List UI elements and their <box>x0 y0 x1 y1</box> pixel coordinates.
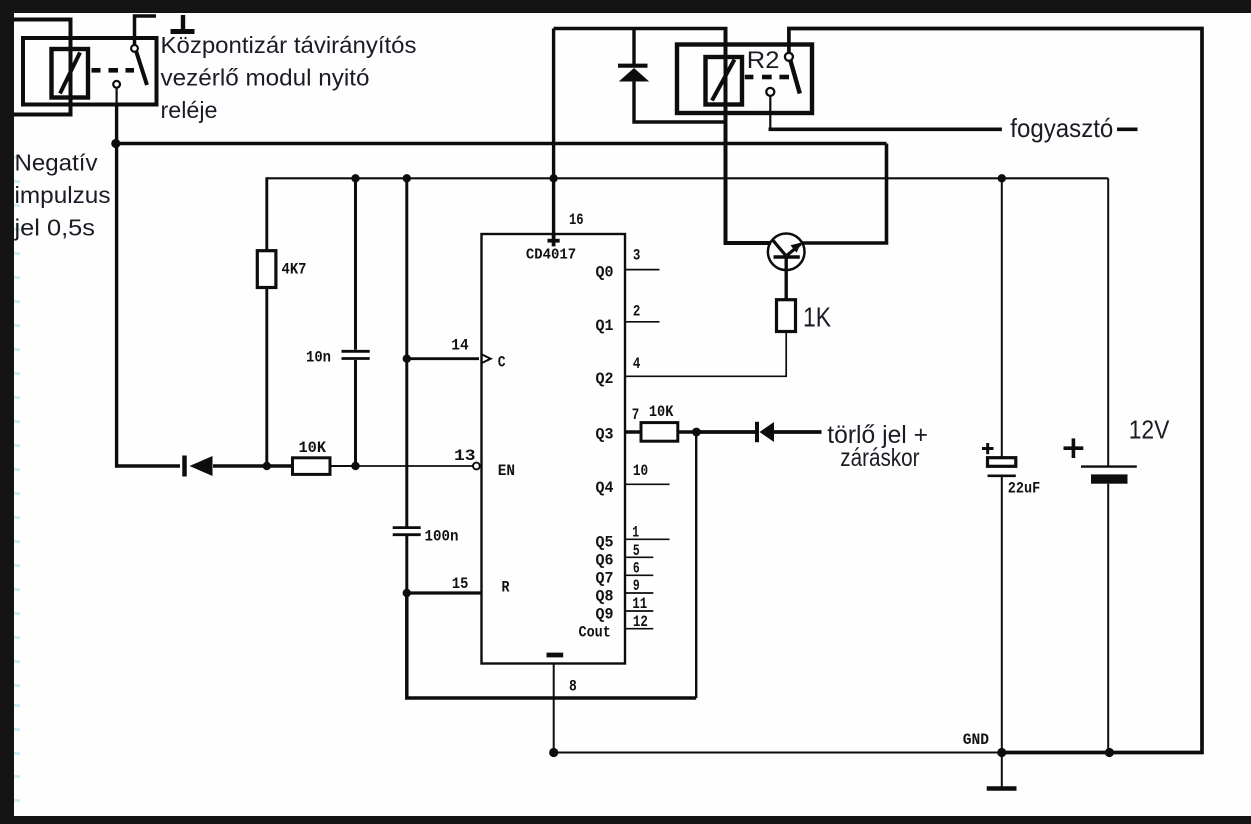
relay K1 coil loop wire <box>14 20 71 115</box>
ground top <box>171 15 195 32</box>
svg-text:22uF: 22uF <box>1008 480 1040 498</box>
pin Q8 <box>625 592 653 594</box>
wire: R2 lower contact down <box>769 96 771 128</box>
svg-text:10n: 10n <box>306 349 331 367</box>
wire: top rail left segment <box>554 27 728 30</box>
pin Q6 <box>625 556 653 558</box>
svg-text:13: 13 <box>454 447 476 465</box>
svg-text:EN: EN <box>498 462 515 480</box>
wire: fogyaszto right dash <box>1117 127 1138 131</box>
wire: x886 vertical to transistor <box>801 144 887 244</box>
wire: 100n branch lower <box>405 536 408 593</box>
svg-text:R2: R2 <box>747 47 780 74</box>
wire: pin 8 <box>553 664 555 753</box>
wire: y466 to diode <box>115 464 180 467</box>
svg-text:Q4: Q4 <box>596 479 614 497</box>
node C junction <box>351 462 359 470</box>
wire: fogyaszto lead <box>769 127 1002 131</box>
svg-text:1K: 1K <box>803 302 831 333</box>
capacitor C3 22uF <box>988 458 1016 467</box>
wire: D2 anode down and right <box>634 81 726 122</box>
wire: gnd rail thin <box>554 752 1002 754</box>
svg-text:reléje: reléje <box>161 97 218 123</box>
diode D3 <box>755 422 759 442</box>
pin Q0 <box>625 269 660 271</box>
wire: base lead <box>785 257 788 300</box>
svg-text:9: 9 <box>633 577 640 595</box>
wire: left vertical x116 <box>115 144 118 468</box>
wire: 10K to node C <box>330 465 358 467</box>
svg-text:CD4017: CD4017 <box>526 246 576 263</box>
svg-text:11: 11 <box>632 595 647 613</box>
svg-text:Q6: Q6 <box>596 552 614 570</box>
IC U1 CD4017 body <box>482 234 626 664</box>
svg-text:GND: GND <box>963 731 989 749</box>
wire: Q2 long lead <box>625 375 787 377</box>
wire: coil vertical through to transistor <box>726 29 772 244</box>
node L junction battery/gnd <box>1105 748 1114 757</box>
svg-text:6: 6 <box>633 560 640 578</box>
wire: battery upper <box>1107 178 1109 466</box>
wire: 10n branch lower <box>354 360 357 466</box>
svg-text:1: 1 <box>632 524 639 542</box>
relay R2 armature <box>791 61 800 94</box>
relay K1 dashed link <box>92 68 135 73</box>
wire: x696 vertical up to Q3 node <box>695 432 697 698</box>
pin16 plus mark <box>548 235 560 246</box>
relay K1 armature <box>136 52 147 85</box>
node K junction 22uF/gnd <box>997 748 1006 757</box>
diode D2 <box>618 64 648 68</box>
wire: node I to diode D3 <box>696 430 757 434</box>
svg-text:Cout: Cout <box>579 623 611 641</box>
svg-text:14: 14 <box>451 337 469 355</box>
diode D1 <box>182 456 187 477</box>
svg-text:Q8: Q8 <box>596 587 614 605</box>
svg-text:fogyasztó: fogyasztó <box>1010 113 1113 143</box>
wire: K1 lower contact down <box>115 88 117 105</box>
svg-text:Q5: Q5 <box>596 534 614 552</box>
wire: 4K7 branch lower <box>265 288 268 467</box>
relay K1 coil <box>52 49 89 98</box>
svg-text:2: 2 <box>633 303 641 321</box>
pin Q3 with resistor R6 10K <box>625 430 642 433</box>
node G junction R pin <box>403 589 411 597</box>
resistor R3 10K <box>293 458 331 475</box>
svg-text:vezérlő modul nyitó: vezérlő modul nyitó <box>161 65 370 91</box>
wire: 4K7 branch upper <box>265 177 268 251</box>
wire: battery lower <box>1107 484 1109 753</box>
relay K1 switch lower contact <box>113 81 120 88</box>
pin Q7 <box>625 574 653 576</box>
transistor Q1 <box>768 234 805 271</box>
svg-text:16: 16 <box>569 211 584 229</box>
wire: clock branch <box>405 178 408 358</box>
svg-text:Q2: Q2 <box>596 370 614 388</box>
wire: 100n branch upper <box>405 359 408 527</box>
resistor R4 4K7 <box>257 251 276 288</box>
relay R2 dashed link <box>745 75 789 80</box>
pin EN bubble <box>473 463 480 470</box>
diode D2 branch wire <box>632 29 635 65</box>
svg-text:jel 0,5s: jel 0,5s <box>13 215 95 241</box>
svg-text:8: 8 <box>569 677 577 695</box>
svg-text:4: 4 <box>633 355 641 373</box>
node J junction pin8/gnd rail <box>549 748 558 757</box>
pin Q4 <box>625 483 670 485</box>
svg-text:Központizár távirányítós: Központizár távirányítós <box>161 32 417 58</box>
capacitor C1 10n <box>342 350 370 353</box>
svg-text:15: 15 <box>452 575 468 593</box>
node M junction 22uF/rail <box>998 174 1006 182</box>
border frame top <box>0 0 1251 13</box>
wire: switch top feed <box>135 16 157 45</box>
svg-text:4K7: 4K7 <box>282 261 307 279</box>
relay R2 lower contact <box>766 88 774 96</box>
relay R2 coil <box>706 57 743 105</box>
relay K1 switch top contact <box>131 45 138 52</box>
pin Q9 <box>625 610 653 612</box>
svg-text:impulzus: impulzus <box>15 182 111 208</box>
relay R2 top contact <box>785 53 793 61</box>
svg-text:Q0: Q0 <box>596 263 614 281</box>
capacitor C3 22uF plus <box>982 443 994 454</box>
svg-text:7: 7 <box>632 406 640 424</box>
label: Kozpontizar text block <box>161 32 417 123</box>
pin Q5 <box>625 538 670 540</box>
node H junction pin16/rail <box>549 174 557 182</box>
wire: +V rail y178 <box>267 177 1108 179</box>
border frame left <box>0 0 14 819</box>
wire: main horizontal y143 <box>116 142 887 146</box>
capacitor C2 100n <box>393 526 421 529</box>
svg-text:Q9: Q9 <box>596 605 614 623</box>
svg-text:10K: 10K <box>299 439 327 457</box>
svg-text:Negatív: Negatív <box>15 150 98 176</box>
cyan ruler ticks <box>14 156 20 802</box>
resistor R5 1K <box>777 300 796 332</box>
svg-text:Q3: Q3 <box>596 426 614 444</box>
IC minus mark <box>547 653 564 658</box>
relay K1 box <box>23 38 157 105</box>
svg-text:R: R <box>502 579 510 597</box>
wire: 1K to Q2 line <box>785 332 787 377</box>
pin Cout <box>625 628 653 630</box>
battery B1 12V <box>1081 465 1137 467</box>
node B junction <box>263 462 271 470</box>
label torlo jel <box>827 421 928 472</box>
svg-text:záráskor: záráskor <box>840 444 919 472</box>
battery B1 plus <box>1064 438 1084 458</box>
svg-text:3: 3 <box>633 247 641 265</box>
node E junction on rail <box>403 174 411 182</box>
wire: pin16 vertical <box>552 29 555 235</box>
wire: diode to node B <box>213 464 293 467</box>
svg-text:Q7: Q7 <box>596 570 614 588</box>
svg-text:100n: 100n <box>425 528 459 546</box>
wire: 10K out to node I <box>678 430 700 433</box>
wire: 22uF lower <box>1001 476 1003 753</box>
svg-text:12: 12 <box>633 613 648 631</box>
svg-text:12V: 12V <box>1129 414 1170 444</box>
clock arrow <box>481 354 491 364</box>
border frame bottom <box>0 816 1251 824</box>
ground bottom <box>1001 753 1003 787</box>
wire: 22uF upper <box>1001 178 1003 458</box>
svg-text:10: 10 <box>633 462 648 480</box>
wire: C pin lead <box>407 357 479 360</box>
node A junction <box>111 139 120 148</box>
node D junction on rail <box>351 174 359 182</box>
wire: 10n branch upper <box>354 178 357 349</box>
wire: top rail right segment and right border <box>789 29 1202 753</box>
node F junction C pin <box>403 355 411 363</box>
wire: R pin lead <box>407 591 482 594</box>
svg-text:C: C <box>498 354 506 372</box>
pin Q1 <box>625 321 660 323</box>
wire: reset net down and right <box>407 593 696 698</box>
node I junction <box>692 428 701 437</box>
svg-text:5: 5 <box>633 542 640 560</box>
label: Negativ impulzus jel 0,5s <box>13 150 110 241</box>
relay R2 box <box>677 45 812 114</box>
wire: D3 to text <box>774 430 822 434</box>
svg-text:10K: 10K <box>649 403 674 421</box>
wire: EN lead <box>355 465 473 467</box>
svg-text:Q1: Q1 <box>596 317 614 335</box>
